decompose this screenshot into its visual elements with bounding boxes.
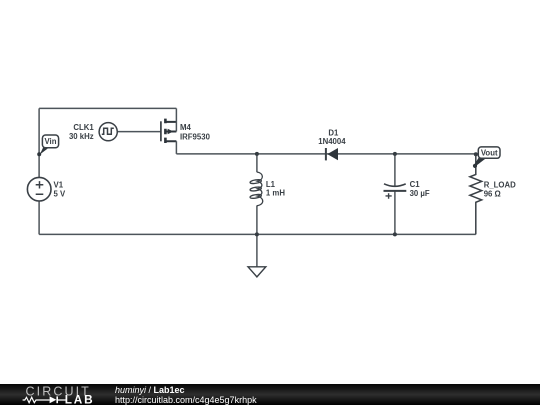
wire bottom rail [39, 233, 476, 235]
junction node C1 bottom [393, 232, 397, 236]
label R_LOAD [484, 181, 516, 199]
capacitor C1 [384, 184, 407, 199]
svg-text:V1: V1 [54, 181, 64, 190]
label CLK1 [69, 123, 94, 141]
wire mid rail [176, 153, 475, 155]
svg-text:CLK1: CLK1 [73, 123, 94, 132]
clock source CLK1 [99, 123, 117, 141]
wire V1 bottom [38, 201, 40, 234]
wire ground lead [256, 234, 258, 266]
svg-text:30 µF: 30 µF [410, 189, 430, 198]
svg-text:L1: L1 [266, 180, 276, 189]
CircuitLab logo [0, 384, 110, 405]
svg-text:5 V: 5 V [54, 189, 67, 198]
wire L1 bottom lead [256, 206, 258, 235]
svg-text:96 Ω: 96 Ω [484, 189, 501, 198]
label C1 [410, 180, 430, 198]
svg-text:IRF9530: IRF9530 [180, 132, 211, 141]
ground [248, 267, 266, 277]
transistor M4 [161, 108, 177, 153]
junction node C1 top [393, 152, 397, 156]
svg-text:1N4004: 1N4004 [318, 137, 346, 146]
svg-text:Vout: Vout [481, 149, 498, 158]
svg-text:D1: D1 [328, 128, 339, 137]
voltage source V1 [27, 177, 51, 201]
svg-text:1 mH: 1 mH [266, 189, 285, 198]
node Vout [473, 147, 500, 168]
junction node ground [255, 232, 259, 236]
svg-text:C1: C1 [410, 180, 421, 189]
junction node Vout corner [474, 152, 478, 156]
resistor R_LOAD [470, 154, 482, 235]
label V1 [54, 181, 67, 199]
svg-text:M4: M4 [180, 123, 191, 132]
svg-text:R_LOAD: R_LOAD [484, 181, 516, 190]
svg-text:Vin: Vin [45, 137, 57, 146]
wire C1 bottom lead [394, 191, 396, 235]
label M4 [180, 123, 211, 141]
label L1 [266, 180, 285, 198]
label D1 [318, 128, 346, 146]
inductor L1 [250, 172, 263, 206]
junction node L1 top [255, 152, 259, 156]
credits text [115, 385, 257, 405]
wire V1 top to rail [38, 108, 40, 177]
wire L1 top lead [256, 154, 258, 172]
node Vin [37, 135, 58, 156]
svg-text:LAB: LAB [65, 392, 95, 405]
diode D1 [326, 148, 338, 160]
footer bar [0, 384, 540, 405]
wire C1 top lead [394, 154, 396, 186]
svg-text:30 kHz: 30 kHz [69, 132, 94, 141]
wire CLK1 to gate [117, 131, 161, 133]
wire top rail [39, 107, 176, 109]
